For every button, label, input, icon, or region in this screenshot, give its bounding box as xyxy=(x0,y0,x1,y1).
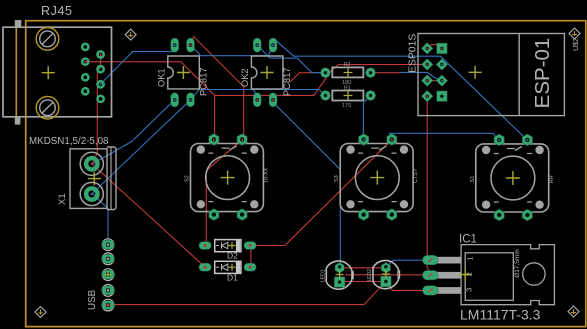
connector RJ45 xyxy=(3,4,112,125)
svg-text:R1: R1 xyxy=(344,85,351,91)
svg-text:CTS?: CTS? xyxy=(413,169,419,183)
fiducial marker bottom right xyxy=(568,306,579,317)
wire blue OK2 to LED1 top xyxy=(271,100,341,268)
svg-text:USB: USB xyxy=(87,289,98,310)
svg-text:ESP01S: ESP01S xyxy=(408,34,419,73)
module U$2 ESP-01 xyxy=(408,28,581,116)
svg-text:2: 2 xyxy=(465,272,474,276)
IC1 legs xyxy=(436,257,461,294)
TRACES (red = top layer) xyxy=(85,37,442,305)
svg-text:OK1: OK1 xyxy=(157,68,167,87)
wire red OK1 tent to button S1 to D2 xyxy=(191,37,244,246)
wire blue OK1 to X1 pad2 xyxy=(92,100,190,194)
wire blue R1 right to button S2 xyxy=(363,96,370,140)
fiducial marker top left xyxy=(125,29,136,40)
svg-text:X1: X1 xyxy=(57,193,68,205)
wire red ESP L3-R3 link xyxy=(427,80,442,82)
wire blue button S2 to button S3 xyxy=(390,133,499,140)
wire red ESP pin4 down to IC1 pad2 xyxy=(427,96,430,275)
wire red LED row to IC1 pad2 xyxy=(345,274,430,276)
button S1 xyxy=(185,134,270,221)
svg-text:S3: S3 xyxy=(334,175,340,182)
svg-text:LM1117T-3.3: LM1117T-3.3 xyxy=(460,307,541,323)
svg-text:MKDSN1,5/2-5,08: MKDSN1,5/2-5,08 xyxy=(29,136,109,147)
resistor R1 170 xyxy=(320,85,375,109)
svg-text:IC1: IC1 xyxy=(459,234,477,246)
optocoupler OK2 PC817 xyxy=(240,38,292,107)
wire blue OK2 to R2 left xyxy=(257,45,325,73)
LED2 xyxy=(367,261,400,289)
svg-text:1: 1 xyxy=(466,256,475,260)
svg-text:PC817: PC817 xyxy=(199,68,209,96)
button S3 xyxy=(470,134,555,221)
svg-text:LED1: LED1 xyxy=(321,269,327,282)
wire blue OK1 to R1 left rail xyxy=(191,90,326,100)
wire red ESP L1-R1 link xyxy=(427,45,442,49)
svg-text:U$2: U$2 xyxy=(573,38,580,51)
wire blue OK1 to OK2 tent to ESP to button S3 xyxy=(191,39,528,141)
wire blue OK1 to X1 pad1 xyxy=(92,100,174,164)
svg-text:RJ45: RJ45 xyxy=(41,4,73,18)
svg-text:10-XX: 10-XX xyxy=(264,167,270,183)
IC1 package outline xyxy=(461,245,554,305)
wire red RJ45 pad to ESP pin via R2 xyxy=(85,62,427,96)
RJ45 mounting hole top xyxy=(36,28,59,51)
svg-text:S1: S1 xyxy=(470,176,476,183)
wire blue LED2 top to IC1 pad1 xyxy=(386,260,431,268)
RJ45 mounting hole bottom xyxy=(36,96,59,119)
wire red LED top pads link xyxy=(340,267,386,269)
svg-text:R2: R2 xyxy=(344,62,351,68)
wire blue OK2 pad stub xyxy=(253,90,257,96)
wire: RJ45 dimension edge xyxy=(15,27,17,117)
ESP pads xyxy=(421,43,447,102)
svg-text:LED2: LED2 xyxy=(367,269,373,282)
diode D1 xyxy=(199,261,256,282)
TRACES (blue = bottom layer) xyxy=(92,39,527,268)
svg-text:Ø17,5mm: Ø17,5mm xyxy=(514,249,521,278)
USB pin header xyxy=(87,239,114,311)
wire red LED bottom pads link xyxy=(340,281,386,283)
svg-text:RH: RH xyxy=(549,175,555,183)
svg-text:PC817: PC817 xyxy=(282,68,292,96)
svg-text:170: 170 xyxy=(342,103,351,109)
diode D2 xyxy=(199,240,256,261)
wire red D2 right to button S2 xyxy=(250,140,392,246)
RJ45 pads xyxy=(82,44,103,102)
regulator IC1 LM1117T-3.3 xyxy=(423,234,555,323)
fiducial marker near U$2 xyxy=(569,28,580,39)
wire red X1 pad1 to D1 xyxy=(92,164,205,267)
svg-text:D2: D2 xyxy=(227,251,238,261)
wire red RJ45 to X1 pad1 xyxy=(92,55,100,165)
resistor R2 180 xyxy=(320,62,375,86)
wire red LED2 bottom to IC1 pad3 xyxy=(386,282,431,291)
wire blue X1 pad2 to USB pad1 xyxy=(92,193,108,244)
fiducial marker bottom left xyxy=(35,307,46,318)
wire red USB pad5 to LED2 bottom xyxy=(108,282,386,305)
wire red branch to button S1 pad xyxy=(213,95,216,139)
wire red D2-D1 link xyxy=(250,246,252,268)
optocoupler OK1 PC817 xyxy=(157,38,209,107)
terminal block X1 MKDSN1,5/2-5,08 xyxy=(29,136,116,210)
button S2 xyxy=(334,134,419,221)
svg-text:OK2: OK2 xyxy=(240,68,250,87)
IC1 pads xyxy=(423,255,439,295)
LED1 xyxy=(321,261,354,289)
wire red R2 right toward ESP xyxy=(371,72,400,74)
svg-text:3: 3 xyxy=(465,288,474,292)
svg-text:S2: S2 xyxy=(185,175,191,182)
wire blue OK1 to RJ45 pin xyxy=(101,52,175,85)
wire red R2 left feed xyxy=(290,73,325,82)
svg-text:ESP-01: ESP-01 xyxy=(531,38,554,109)
wire blue R2 right into ESP pin xyxy=(400,72,442,80)
svg-text:D1: D1 xyxy=(227,273,238,283)
